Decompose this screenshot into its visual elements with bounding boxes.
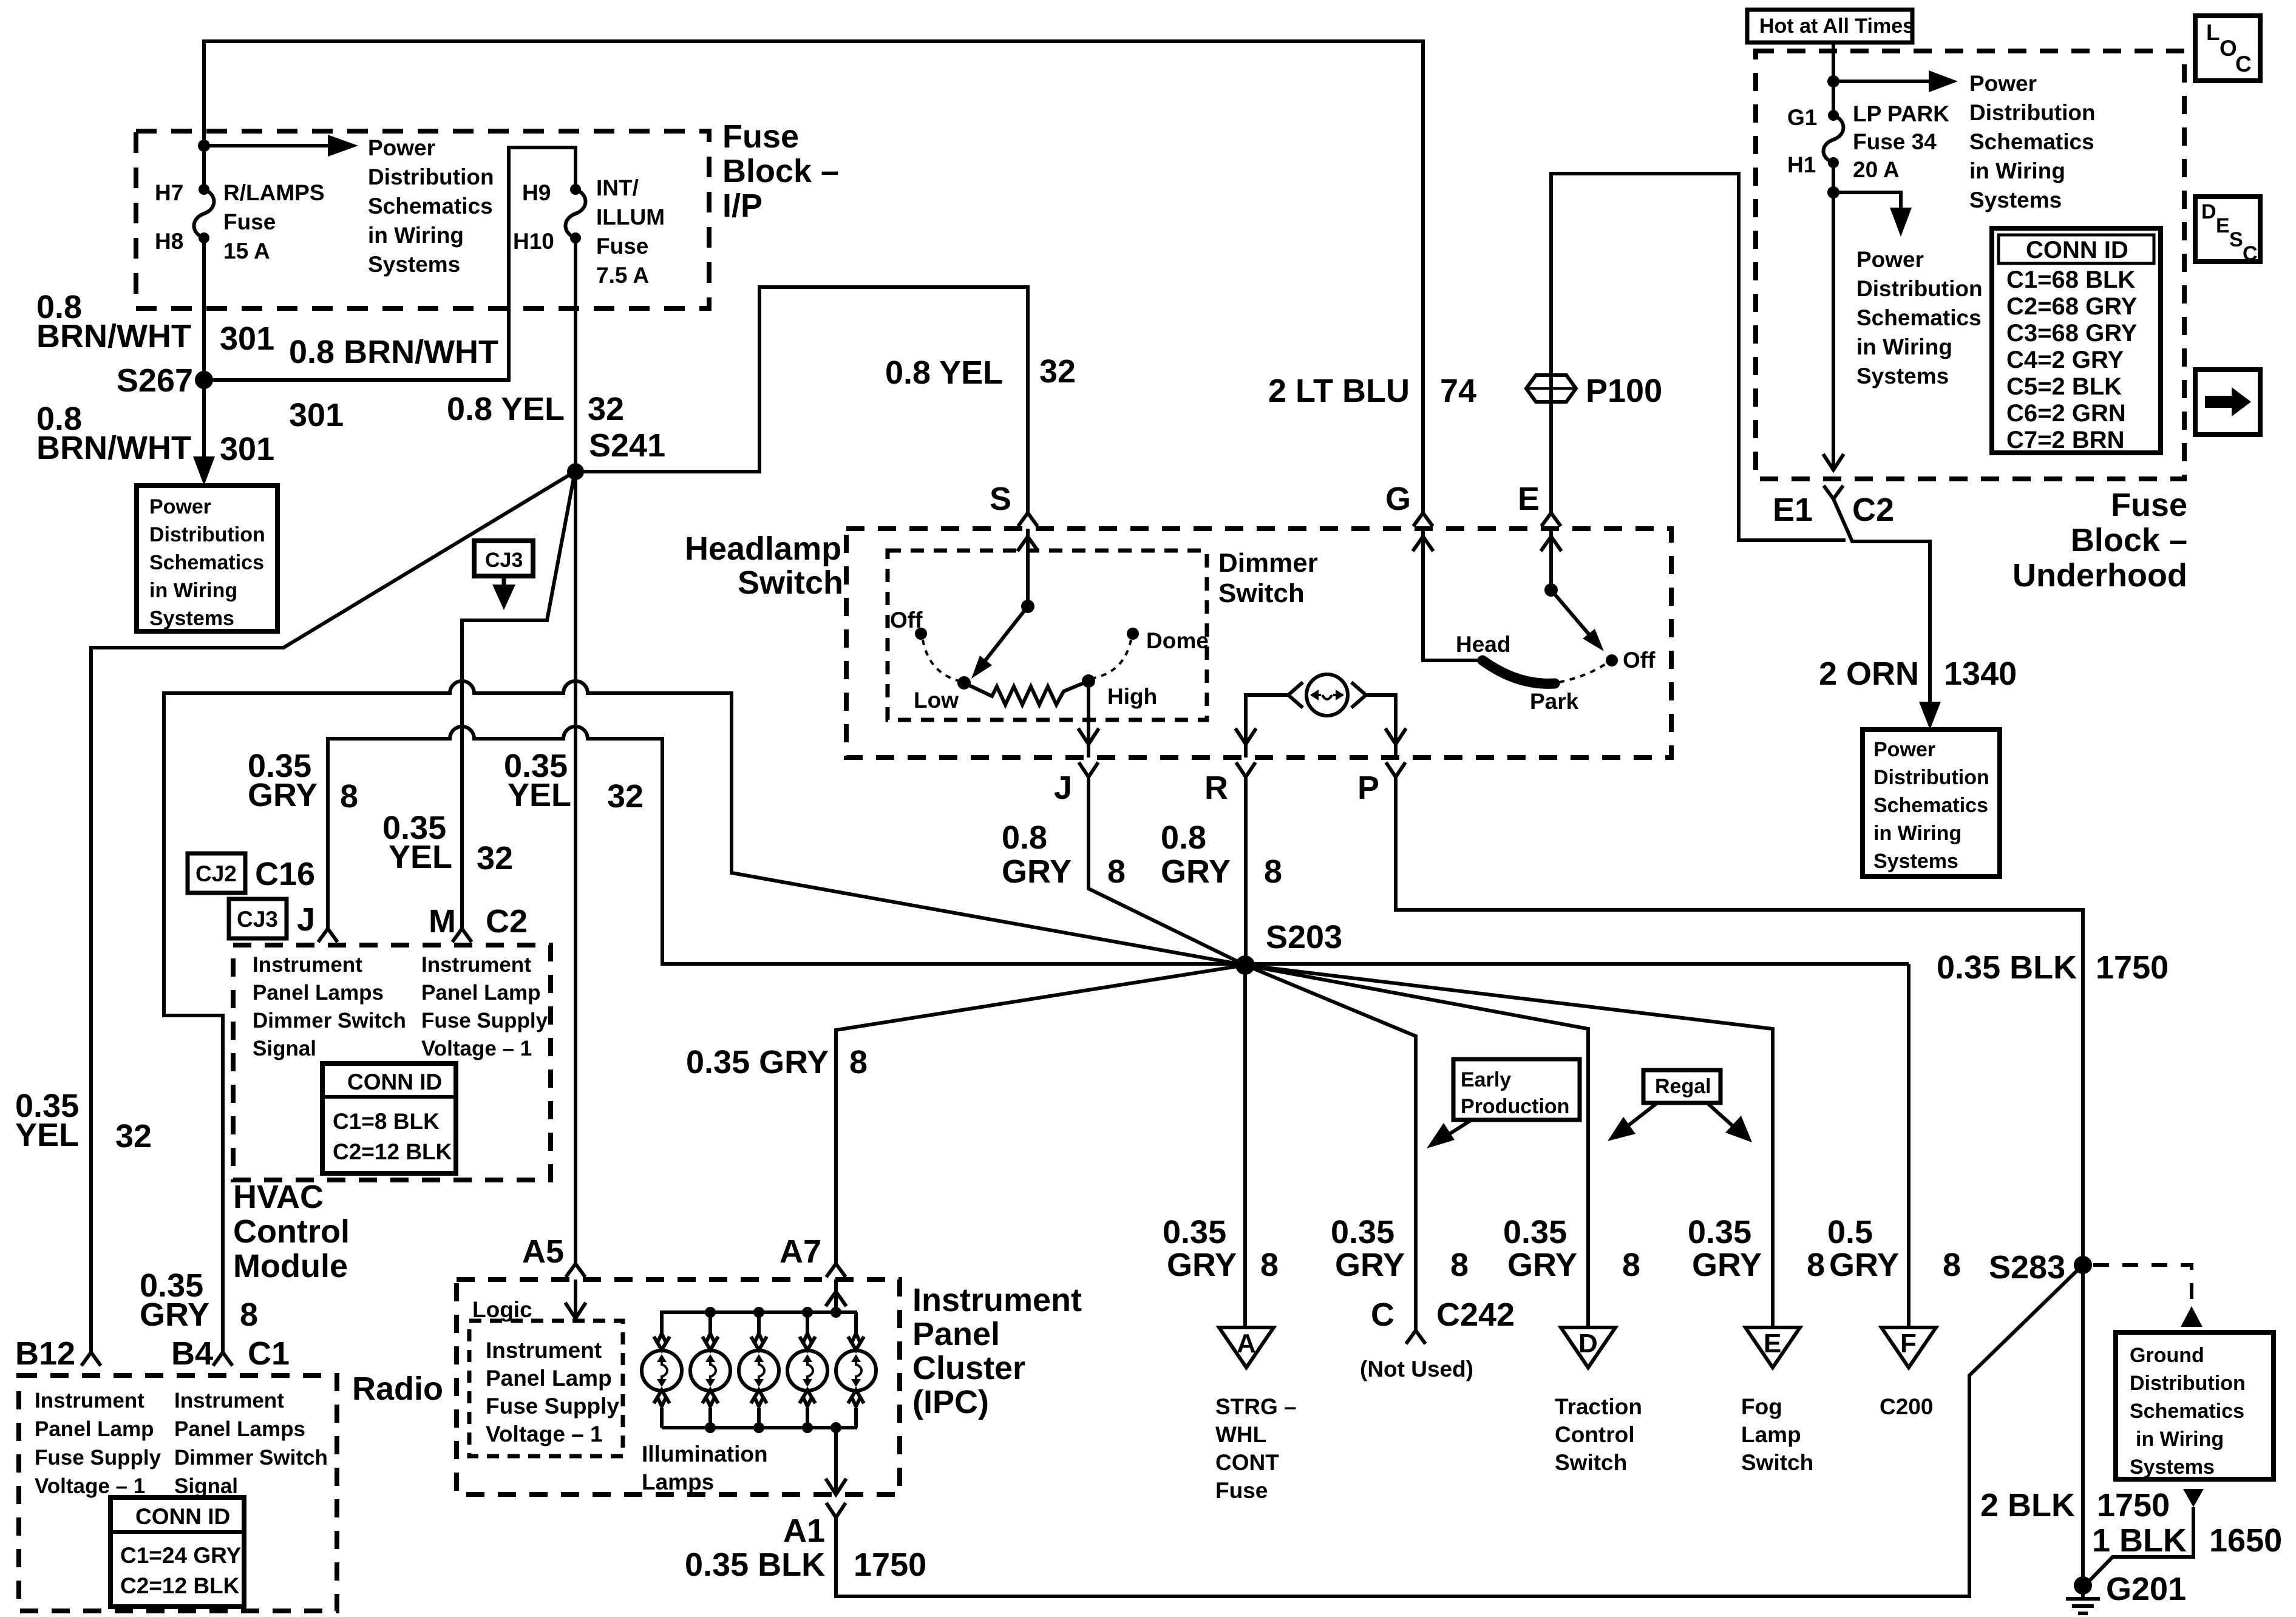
svg-text:GRY: GRY [1335,1247,1405,1283]
svg-text:Distribution: Distribution [1873,766,1989,789]
svg-text:C2=12 BLK: C2=12 BLK [120,1573,240,1598]
svg-text:1650: 1650 [2209,1522,2282,1559]
svg-text:B4: B4 [171,1335,213,1372]
svg-text:INT/: INT/ [596,175,639,200]
svg-text:Control: Control [233,1213,350,1250]
svg-text:Park: Park [1530,689,1579,714]
svg-text:CONN ID: CONN ID [347,1070,442,1094]
svg-text:8: 8 [1260,1247,1279,1283]
wire: top feed from R/LAMPS fuse to headlamp switch G [204,41,1423,513]
svg-text:YEL: YEL [389,839,452,875]
svg-text:Dimmer Switch: Dimmer Switch [174,1446,328,1470]
svg-text:C1=68 BLK: C1=68 BLK [2006,266,2135,293]
svg-text:(IPC): (IPC) [912,1384,989,1420]
wire: INT/ILLUM fuse H10 down to S241 (0.8 YEL 32) [574,238,577,472]
wire: S203 to C242 (0.35 GRY 8, not used) [1245,965,1416,1331]
wire: branch arrow to Power Distribution reference (underhood middle) [1833,192,1901,212]
svg-text:2 BLK: 2 BLK [1980,1487,2075,1524]
svg-text:Systems: Systems [2130,1456,2215,1479]
svg-text:A1: A1 [783,1513,825,1549]
svg-text:YEL: YEL [508,777,571,813]
svg-text:Instrument: Instrument [174,1389,284,1412]
label: Fuse Block - Underhood [2012,487,2187,594]
svg-text:BRN/WHT: BRN/WHT [36,318,191,354]
svg-text:Instrument: Instrument [421,953,531,977]
svg-text:J: J [297,901,315,938]
svg-text:C6=2 GRN: C6=2 GRN [2006,400,2126,427]
label: 0.35 BLK 1750 (A1 wire) [685,1547,926,1583]
svg-text:GRY: GRY [1829,1247,1899,1283]
label: 2 LT BLU 74 (G wire) [1268,373,1476,409]
wire: dimmer R pin straight down to S203 [1244,777,1248,965]
svg-text:Panel Lamps: Panel Lamps [253,981,384,1005]
svg-text:Module: Module [233,1248,348,1284]
svg-text:Schematics: Schematics [368,194,493,219]
radio text: instrument panel lamps dimmer switch signal [174,1389,328,1498]
Dimmer Switch dashed box [888,551,1207,720]
pin chevron A1 below IPC [826,1503,846,1517]
dashed reference wire from S283 to ground distribution [2093,1265,2192,1305]
svg-text:WHL: WHL [1215,1422,1266,1447]
svg-text:GRY: GRY [140,1297,209,1333]
svg-text:GRY: GRY [1507,1247,1577,1283]
wire: S241 diagonal to radio B12 branch [91,472,575,1352]
svg-text:G201: G201 [2106,1571,2186,1607]
fuse LP PARK Fuse 34 20A (G1/H1) [1787,101,1949,182]
svg-text:S203: S203 [1266,919,1342,955]
junction box CJ2 pin C16 [188,853,315,893]
fuse INT/ILLUM 7.5A (H9/H10) [513,175,665,288]
svg-text:Fuse Supply: Fuse Supply [421,1009,548,1032]
svg-text:0.8: 0.8 [1161,819,1206,856]
svg-text:H9: H9 [522,180,551,205]
wire: bus down to A1 with arrow [834,1428,838,1494]
svg-text:Instrument: Instrument [35,1389,144,1412]
wire: P pin to S283 (0.35 BLK 1750) [1396,777,2083,1265]
svg-text:Fuse: Fuse [1215,1478,1268,1503]
label: Traction Control Switch [1555,1394,1642,1475]
svg-text:C: C [1371,1297,1394,1333]
svg-text:C3=68 GRY: C3=68 GRY [2006,320,2138,347]
svg-text:Distribution: Distribution [1856,276,1983,301]
svg-text:A7: A7 [779,1233,821,1270]
wire: S241 down to IPC A5 (0.35 YEL 32) [574,472,577,1264]
svg-text:H8: H8 [155,229,183,254]
svg-text:Cluster: Cluster [912,1350,1025,1386]
svg-text:2 LT BLU: 2 LT BLU [1268,373,1410,409]
pin chevron M at HVAC [452,929,472,942]
svg-text:P100: P100 [1586,373,1662,409]
svg-text:Panel Lamp: Panel Lamp [421,981,540,1005]
svg-text:S241: S241 [589,427,665,464]
svg-text:Signal: Signal [253,1037,316,1060]
svg-text:32: 32 [588,391,624,427]
Radio dashed box [19,1375,337,1611]
wire: ground ref to G201 (1 BLK 1650) [2087,1507,2193,1583]
svg-text:Systems: Systems [368,252,460,277]
svg-text:Regal: Regal [1655,1075,1711,1098]
svg-text:Switch: Switch [738,564,843,601]
svg-text:0.35 GRY: 0.35 GRY [686,1044,829,1080]
svg-text:C2: C2 [1852,492,1894,528]
svg-text:Distribution: Distribution [2130,1372,2246,1395]
contact dot Off (headlamp) [1606,654,1618,666]
svg-text:Voltage – 1: Voltage – 1 [421,1037,532,1060]
svg-text:Instrument: Instrument [486,1338,602,1363]
label: 0.35 GRY 8 (HVAC J wire) [248,748,358,815]
svg-text:Block –: Block – [2071,522,2187,558]
svg-text:A5: A5 [522,1233,564,1270]
svg-text:8: 8 [1622,1247,1640,1283]
wire: S203 down to STRG fuse A (0.35 GRY 8) [1243,965,1247,1327]
arrow at underhood box exit [1823,454,1844,470]
Logic dashed box [469,1321,623,1456]
pin chevron A7 at IPC [826,1264,846,1277]
headlamp switch blade Head-Park (thick arc) [1483,660,1555,683]
junction dot [1827,75,1839,87]
svg-text:Distribution: Distribution [149,523,265,546]
svg-text:Fuse 34: Fuse 34 [1853,129,1937,154]
svg-text:S267: S267 [117,362,193,399]
svg-text:Panel Lamps: Panel Lamps [174,1417,305,1441]
Regal box with arrows [1608,1070,1752,1142]
contact dot Dome [1127,628,1139,640]
svg-text:C200: C200 [1880,1394,1933,1419]
triangle connector D [1561,1327,1615,1368]
svg-text:Schematics: Schematics [1969,129,2094,154]
contact dot High [1082,674,1095,688]
svg-text:0.35: 0.35 [1163,1214,1226,1250]
svg-text:301: 301 [289,397,344,433]
label: 0.35 YEL 32 (B12 wire) [15,1088,152,1154]
wire: A7 down to lamp bus [834,1280,838,1312]
HVAC text: instrument panel lamp fuse supply voltage - 1 [421,953,548,1060]
svg-text:Distribution: Distribution [368,164,494,189]
splice S203 [1235,955,1255,975]
svg-text:7.5 A: 7.5 A [596,263,649,288]
inline connector E1 / C2 [1824,486,1843,499]
svg-text:0.8: 0.8 [1002,819,1047,856]
Hot at All Times box [1747,10,1914,42]
triangle connector F [1881,1327,1936,1368]
svg-text:Distribution: Distribution [1969,100,2096,125]
svg-text:Fuse: Fuse [722,118,799,155]
Instrument Panel Cluster dashed box [457,1280,900,1494]
label: Fuse Block - I/P [722,118,839,224]
svg-text:H1: H1 [1787,152,1816,177]
ground G201 [2066,1571,2186,1613]
svg-text:32: 32 [477,840,513,876]
contact dot Low [957,676,971,690]
wire: arrow to Power Distribution reference (top-left) [204,144,333,147]
splice S241 [567,463,584,480]
wire: E pin down to switch arm pivot [1549,529,1553,590]
svg-text:Lamp: Lamp [1741,1422,1801,1447]
triangle arrow below ground box [2183,1489,2204,1507]
svg-text:Instrument: Instrument [912,1282,1082,1318]
label: 0.35 GRY 8 (radio B4 wire) [140,1267,258,1333]
junction box CJ3 pin J [229,899,315,938]
svg-text:Power: Power [1969,71,2037,96]
pin chevron B12 at radio [81,1352,101,1366]
svg-text:H7: H7 [155,180,183,205]
svg-text:C2=68 GRY: C2=68 GRY [2006,293,2138,320]
Fuse Block - Underhood dashed box [1756,51,2184,479]
svg-text:C1=8 BLK: C1=8 BLK [333,1109,440,1134]
wire: LP PARK fuse down to E1 with branch [1832,163,1835,469]
svg-text:8: 8 [1107,853,1126,890]
svg-text:R: R [1204,770,1228,806]
svg-text:Production: Production [1461,1095,1569,1118]
svg-text:C: C [2243,242,2258,265]
svg-text:Fuse: Fuse [2111,487,2187,523]
svg-text:0.35 BLK: 0.35 BLK [685,1547,825,1583]
svg-text:in Wiring: in Wiring [368,223,464,248]
svg-text:F: F [1900,1329,1917,1358]
label: Illumination Lamps [642,1442,768,1494]
svg-text:0.35: 0.35 [1688,1214,1751,1250]
svg-text:Systems: Systems [149,607,234,630]
wire: S267 to INT/ILLUM fuse feed (0.8 BRN/WHT 301) [204,147,576,380]
svg-text:Power: Power [1856,247,1924,272]
svg-text:1 BLK: 1 BLK [2092,1522,2187,1559]
svg-text:Low: Low [914,688,959,713]
label: 0.8 BRN/WHT 301 (above S267) [36,289,274,357]
svg-text:E: E [1764,1329,1781,1358]
svg-text:A: A [1237,1329,1256,1358]
svg-text:CONN ID: CONN ID [2026,237,2128,263]
svg-text:Fuse: Fuse [596,234,648,259]
svg-text:C2: C2 [486,903,528,940]
dashed arc Park to Off [1559,663,1606,682]
wire: E1 connector to power distribution reference (2 ORN 1340) [1833,499,1930,715]
svg-text:Signal: Signal [174,1474,238,1498]
wire: dimmer J pin diagonal to S203 [1089,777,1245,965]
svg-text:0.8 YEL: 0.8 YEL [447,391,565,427]
pin chevron C242 [1406,1331,1425,1344]
solid box: Power Distribution Schematics (right) [1863,730,2000,876]
svg-text:2 ORN: 2 ORN [1819,656,1919,692]
svg-text:Ground: Ground [2130,1344,2204,1367]
label: Headlamp Switch [685,531,843,601]
svg-text:0.35: 0.35 [1503,1214,1567,1250]
svg-text:CJ3: CJ3 [485,549,523,572]
svg-text:G1: G1 [1787,105,1817,130]
svg-text:GRY: GRY [1002,853,1072,890]
svg-text:S: S [2229,228,2243,251]
splice S267 [195,371,213,389]
svg-text:Lamps: Lamps [642,1470,714,1494]
logic text: instrument panel lamp fuse supply voltage - 1 [486,1338,619,1446]
svg-text:1750: 1750 [2096,949,2169,986]
svg-text:Early: Early [1461,1068,1511,1091]
svg-text:0.35 BLK: 0.35 BLK [1937,949,2077,986]
svg-text:E: E [2216,214,2230,237]
svg-text:CONT: CONT [1215,1450,1279,1475]
svg-text:Fuse Supply: Fuse Supply [35,1446,161,1470]
svg-text:C: C [2235,52,2252,76]
svg-text:C1=24 GRY: C1=24 GRY [120,1543,241,1568]
svg-text:8: 8 [1264,853,1282,890]
svg-text:Headlamp: Headlamp [685,531,841,567]
dashed arc Off to Low [923,640,959,681]
resistor between Low and High [964,681,1089,705]
svg-text:Instrument: Instrument [253,953,362,977]
pin chevron P (dimmer) [1386,762,1405,777]
splice S283 [2074,1256,2092,1274]
svg-text:E1: E1 [1773,492,1813,528]
svg-text:Schematics: Schematics [149,551,264,574]
label: Power Distribution Schematics in Wiring Systems (top-left) [368,135,494,277]
svg-text:ILLUM: ILLUM [596,205,665,229]
pin chevron R (dimmer) [1236,762,1255,777]
svg-text:Voltage – 1: Voltage – 1 [486,1422,603,1446]
label: Instrument Panel Cluster (IPC) [912,1282,1082,1420]
wire: S203 to traction control D (0.35 GRY 8) [1245,965,1588,1327]
wire: lamp to P pin [1366,695,1396,758]
wire: S pin to dimmer wiper pivot with arrow [1026,529,1030,606]
svg-text:Power: Power [1873,738,1935,761]
svg-text:G: G [1385,481,1411,517]
svg-text:CONN ID: CONN ID [135,1504,230,1529]
svg-text:D: D [1578,1329,1598,1358]
svg-text:C2=12 BLK: C2=12 BLK [333,1139,452,1164]
svg-text:Schematics: Schematics [2130,1400,2244,1423]
svg-text:in Wiring: in Wiring [1969,158,2065,183]
svg-text:0.8 YEL: 0.8 YEL [885,354,1003,391]
svg-text:8: 8 [849,1044,868,1080]
label: 0.8 BRN/WHT 301 (below S267) [36,401,274,467]
wire: hot feed down to LP PARK fuse [1832,42,1835,115]
svg-text:Off: Off [1623,648,1656,673]
label: Fog Lamp Switch [1741,1394,1813,1475]
DESC box [2195,197,2260,265]
svg-text:C4=2 GRY: C4=2 GRY [2006,347,2124,373]
svg-text:in Wiring: in Wiring [1856,334,1952,359]
solid box: Power Distribution Schematics (left) [137,486,277,631]
svg-text:8: 8 [1943,1247,1961,1283]
wire: S203 diagonal to IPC A7 (0.35 GRY 8) [836,965,1245,1264]
fuse R/LAMPS 15A (H7/H8) [155,180,325,263]
svg-text:Systems: Systems [1873,850,1958,873]
wire: High down to J pin with arrow [1087,681,1090,758]
svg-text:GRY: GRY [248,777,318,813]
illumination lamps (5 bulbs) [642,1334,876,1428]
svg-text:32: 32 [1039,353,1076,390]
wire: S203 horizontal right then down to C200 F (0.5 GRY 8) [1907,964,1911,1327]
contact dot Off (dimmer) [915,628,927,640]
svg-text:Fuse: Fuse [223,209,276,234]
HVAC control module dashed box [233,945,551,1180]
wire: A1 to S283 along bottom [836,1265,2083,1596]
svg-text:Systems: Systems [1856,364,1949,388]
pin chevron A5 at IPC [566,1264,585,1277]
label: 0.35 BLK 1750 (right side) [1937,949,2169,986]
illumination lamp bus top [662,1312,857,1333]
svg-text:Dome: Dome [1146,628,1209,653]
svg-text:0.5: 0.5 [1827,1214,1873,1250]
label: Power Distribution Schematics in Wiring Systems (underhood top) [1969,71,2096,212]
dimmer wiper pivot dot [1021,600,1034,613]
headlamp switch arm pivot dot [1544,583,1558,597]
HVAC text: instrument panel lamps dimmer switch signal [253,953,406,1060]
svg-text:Underhood: Underhood [2012,557,2187,594]
svg-text:Switch: Switch [1741,1450,1813,1475]
svg-text:32: 32 [115,1118,152,1154]
svg-text:Panel Lamp: Panel Lamp [35,1417,154,1441]
svg-text:15 A: 15 A [223,239,270,263]
wire: fuse H8 down through S267 to power dist reference [202,238,206,472]
svg-text:Radio: Radio [352,1371,443,1407]
Headlamp Switch dashed box [846,529,1671,758]
svg-text:CJ3: CJ3 [237,907,278,932]
wire: E up over to E1/C2 connector [1551,174,1846,540]
svg-text:8: 8 [240,1297,258,1333]
svg-text:Schematics: Schematics [1856,305,1982,330]
svg-text:P: P [1357,770,1379,806]
svg-text:GRY: GRY [1692,1247,1762,1283]
svg-text:YEL: YEL [15,1117,79,1153]
svg-text:Switch: Switch [1555,1450,1627,1475]
svg-text:Control: Control [1555,1422,1635,1447]
label: 0.8 GRY 8 (dimmer R wire) [1161,819,1282,890]
svg-text:in Wiring: in Wiring [2136,1428,2224,1451]
svg-text:HVAC: HVAC [233,1179,324,1215]
wire: S241 loop up to headlamp switch S (0.8 YEL 32) [576,287,1028,513]
svg-text:C1: C1 [248,1335,290,1372]
svg-text:J: J [1054,770,1072,806]
svg-text:Schematics: Schematics [1873,794,1988,817]
svg-text:Voltage – 1: Voltage – 1 [35,1474,145,1498]
svg-text:in Wiring: in Wiring [149,579,237,602]
HVAC CONN ID table [322,1063,456,1173]
label: STRG - WHL CONT Fuse [1215,1394,1297,1503]
solid box: Ground Distribution Schematics in Wiring Systems [2116,1332,2274,1479]
svg-text:1750: 1750 [854,1547,926,1583]
svg-text:Panel: Panel [912,1316,1000,1352]
junction dot on R/LAMPS feed [198,140,210,152]
svg-text:C16: C16 [255,856,315,892]
svg-text:B12: B12 [15,1335,75,1372]
wire B: HVAC J dimmer signal to S203 long horizontal [328,727,1909,964]
svg-text:L: L [2206,20,2220,45]
label: 2 ORN 1340 [1819,656,2017,692]
svg-text:Fog: Fog [1741,1394,1782,1419]
svg-text:C5=2 BLK: C5=2 BLK [2006,373,2122,400]
label: 0.8 YEL 32 above S241 [447,391,624,427]
svg-text:C7=2 BRN: C7=2 BRN [2006,427,2125,453]
headlamp switch arm toward Off [1551,590,1594,640]
svg-text:BRN/WHT: BRN/WHT [36,430,191,466]
svg-text:8: 8 [1807,1247,1825,1283]
svg-text:D: D [2201,200,2216,223]
svg-text:Switch: Switch [1218,578,1305,608]
svg-text:0.8 BRN/WHT: 0.8 BRN/WHT [289,334,498,370]
svg-text:0.35: 0.35 [1331,1214,1394,1250]
svg-text:Block –: Block – [722,153,839,189]
svg-text:H10: H10 [513,229,554,254]
radio CONN ID table [110,1497,244,1607]
svg-text:Panel Lamp: Panel Lamp [486,1366,612,1391]
wire: S283 down to G201 (2 BLK 1750) [2081,1265,2085,1585]
svg-text:Dimmer Switch: Dimmer Switch [253,1009,406,1032]
svg-text:Fuse Supply: Fuse Supply [486,1394,619,1419]
label: Power Distribution Schematics in Wiring Systems (underhood middle) [1856,247,1983,388]
svg-text:1340: 1340 [1944,656,2017,692]
svg-text:R/LAMPS: R/LAMPS [223,180,325,205]
Early Production box with arrow [1427,1059,1580,1148]
CONN ID table (underhood) [1992,228,2161,453]
